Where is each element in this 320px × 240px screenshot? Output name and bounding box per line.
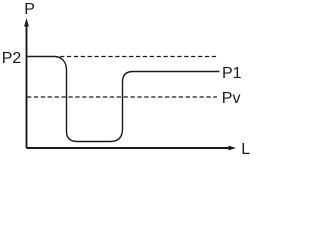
svg-text:L: L	[241, 141, 250, 158]
horizontal axis L	[27, 146, 237, 151]
vertical axis P	[24, 18, 29, 148]
pressure curve (P2 plateau, dip, P1 plateau)	[27, 57, 220, 142]
svg-text:P2: P2	[2, 50, 22, 67]
svg-text:Pv: Pv	[222, 90, 241, 107]
Pv vapor-pressure dashed line	[27, 96, 217, 98]
P2 level dashed reference line	[60, 56, 217, 58]
svg-text:P: P	[24, 1, 35, 18]
svg-text:P1: P1	[222, 65, 242, 82]
